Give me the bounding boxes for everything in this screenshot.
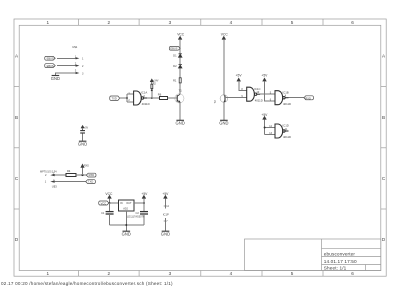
svg-text:+5V: +5V xyxy=(141,192,148,196)
wire branch up from junction xyxy=(82,167,84,175)
wire VCC chain xyxy=(179,40,181,95)
junction (IC1D inputs tie) xyxy=(264,127,266,129)
resistor R4 (inline) xyxy=(66,174,76,177)
svg-text:C1: C1 xyxy=(101,211,105,215)
wire IC2 OUT to +5V xyxy=(134,202,144,204)
svg-text:02.17 00:20 /home/stefan/eagl: 02.17 00:20 /home/stefan/eagle/homecontr… xyxy=(1,281,173,286)
transistor T2 xyxy=(224,96,226,102)
wire C3 to GND xyxy=(82,133,84,141)
svg-text:6: 6 xyxy=(351,20,354,25)
wire gnd bus xyxy=(110,224,144,226)
svg-text:R6: R6 xyxy=(158,93,162,97)
svg-text:VCC: VCC xyxy=(221,32,229,36)
capacitor C2 xyxy=(140,212,148,214)
svg-text:3: 3 xyxy=(169,20,172,25)
svg-text:C2: C2 xyxy=(135,211,139,215)
svg-text:4: 4 xyxy=(230,20,233,25)
wire +5V to pin 14 xyxy=(165,199,167,209)
wire +5V to IC1D inputs xyxy=(265,120,275,135)
svg-text:MPT0,5/2-2,54: MPT0,5/2-2,54 xyxy=(40,171,57,174)
svg-text:1: 1 xyxy=(47,20,50,25)
wire IC2 ADJ down xyxy=(125,211,127,231)
wire U$3 pin2 to R4 xyxy=(55,174,67,176)
svg-text:T2: T2 xyxy=(213,100,217,104)
wire branch up xyxy=(151,89,153,98)
frame column numbers bottom xyxy=(47,271,355,276)
wire U$1 pin3 from GND xyxy=(55,73,76,75)
net flag RXD (IC1B output) xyxy=(304,96,314,100)
wire pin 7 to GND xyxy=(165,218,167,231)
ground GND (C3) xyxy=(79,140,87,142)
svg-text:OUT: OUT xyxy=(126,202,132,205)
svg-text:6: 6 xyxy=(351,271,354,276)
svg-text:LD1117AS50TR: LD1117AS50TR xyxy=(127,215,145,218)
svg-text:RXD: RXD xyxy=(84,166,89,168)
svg-text:4: 4 xyxy=(230,271,233,276)
wire IC1C out to IC1B pin5 xyxy=(260,93,275,95)
wire R6 to T1 xyxy=(167,97,176,99)
svg-text:IN: IN xyxy=(120,202,123,205)
svg-text:TXD: TXD xyxy=(88,180,93,184)
frame row letters xyxy=(15,54,386,243)
wire C2 branch xyxy=(143,203,145,211)
wire U$1 pin1 from flag xyxy=(57,57,76,59)
title block xyxy=(245,239,381,271)
wire C1 to gnd bus xyxy=(109,214,111,225)
svg-text:GND: GND xyxy=(219,121,228,126)
svg-text:VCC: VCC xyxy=(177,32,185,36)
svg-text:Sheet: 1/1: Sheet: 1/1 xyxy=(324,266,347,271)
svg-text:4011D: 4011D xyxy=(142,102,150,106)
supply arrow node xyxy=(81,126,84,131)
wire U$1 pin2 from flag xyxy=(57,65,76,67)
net flag TXD (input to IC1A) xyxy=(110,96,120,100)
wire C1 branch xyxy=(109,203,111,211)
svg-text:GND: GND xyxy=(175,121,184,126)
wire flag to IC1A inputs xyxy=(120,94,134,102)
connector U$3 (serial header) xyxy=(50,174,54,183)
svg-text:14.01.17 17:50: 14.01.17 17:50 xyxy=(324,259,357,264)
svg-text:1: 1 xyxy=(47,271,50,276)
wire +5V to IC1B pin6 xyxy=(265,81,275,101)
svg-text:D2: D2 xyxy=(173,64,177,68)
net flag EBUS (on VCC chain) xyxy=(169,46,180,50)
diode D1 xyxy=(179,54,182,57)
svg-text:GND: GND xyxy=(51,76,60,81)
capacitor C1 xyxy=(106,212,114,214)
svg-text:+24V: +24V xyxy=(153,80,159,82)
svg-text:4011D: 4011D xyxy=(283,102,291,106)
ground GND (T2) xyxy=(220,119,228,121)
svg-text:R1: R1 xyxy=(173,78,177,82)
wire U$3 pin1 to flag xyxy=(55,181,86,183)
capacitor C3 xyxy=(80,131,85,133)
net flag RXD2 xyxy=(86,173,96,177)
wire flag to IC2 IN xyxy=(109,202,118,204)
svg-text:5: 5 xyxy=(291,20,294,25)
svg-text:ebusconverter: ebusconverter xyxy=(324,251,356,256)
svg-text:B: B xyxy=(382,115,385,120)
wire R4 to flag xyxy=(76,174,87,176)
sheet frame xyxy=(14,19,386,276)
title block text xyxy=(324,251,357,270)
wire T2 base to IC1C pin 9 xyxy=(225,97,247,99)
wire VCC down to IN wire xyxy=(109,199,111,203)
ground GND (T1) xyxy=(176,119,184,121)
svg-text:GND: GND xyxy=(161,232,170,237)
svg-text:IC1P: IC1P xyxy=(163,212,169,216)
svg-text:U$3: U$3 xyxy=(52,184,57,188)
svg-text:EBUS-: EBUS- xyxy=(47,64,55,68)
ground GND (U$1 pin3) xyxy=(52,75,60,77)
wire T2 emitter to GND xyxy=(223,102,225,120)
frame column numbers top xyxy=(47,20,355,25)
svg-text:+5V: +5V xyxy=(236,73,243,77)
svg-text:3: 3 xyxy=(169,271,172,276)
svg-text:EBUS+: EBUS+ xyxy=(47,57,56,61)
net flag +24V (regulator input) xyxy=(99,201,109,205)
connector U$1 xyxy=(76,57,80,74)
supply arrow above R2 xyxy=(150,79,153,84)
svg-text:+5V: +5V xyxy=(84,127,89,130)
wire +5V to IC1C pin8 xyxy=(239,81,247,90)
net flag TXD2 xyxy=(86,180,96,184)
junction dot xyxy=(151,89,153,91)
resistor R6 (inline) xyxy=(159,97,167,100)
junction (gnd bus) xyxy=(125,224,127,226)
svg-text:4011D: 4011D xyxy=(255,98,263,102)
wire C2 to gnd bus xyxy=(143,214,145,225)
wire IC1A output to T1 base xyxy=(147,97,159,99)
resistor R1 (vertical) xyxy=(179,78,181,83)
svg-text:EBUS: EBUS xyxy=(170,47,177,51)
svg-text:TXD: TXD xyxy=(112,96,117,100)
NAND gate IC1A xyxy=(134,91,147,105)
svg-text:GND: GND xyxy=(122,232,131,237)
ground GND (IC1P) xyxy=(162,230,170,232)
NAND gate IC1D xyxy=(275,124,289,138)
svg-text:GND: GND xyxy=(78,142,87,147)
junction (IC1A inputs tie) xyxy=(126,97,128,99)
svg-text:+5V: +5V xyxy=(261,73,268,77)
wire IC1B out to flag xyxy=(289,97,304,99)
svg-text:RXD: RXD xyxy=(305,96,311,100)
voltage regulator IC2 xyxy=(119,200,134,211)
ground GND (regulator) xyxy=(123,230,131,232)
junction (OUT/+5V) xyxy=(143,202,145,204)
junction (VCC/IN) xyxy=(109,202,111,204)
svg-text:B: B xyxy=(15,115,18,120)
junction (R4 net) xyxy=(81,174,83,176)
svg-text:2: 2 xyxy=(108,271,111,276)
NAND gate IC1C xyxy=(247,87,261,101)
net flag EBUS+ xyxy=(45,56,55,60)
transistor T1 xyxy=(176,95,178,102)
svg-text:5: 5 xyxy=(291,271,294,276)
diode D2 xyxy=(179,65,182,68)
svg-text:R4: R4 xyxy=(67,169,71,173)
node arrow RXD xyxy=(81,164,84,167)
junction on output wire xyxy=(151,97,153,99)
wire VCC to T2 xyxy=(223,40,225,96)
net flag EBUS- xyxy=(45,64,56,68)
NAND gate IC1B xyxy=(275,91,289,105)
svg-text:2: 2 xyxy=(108,20,111,25)
wire T1 emitter to GND xyxy=(179,102,181,120)
svg-text:U$1: U$1 xyxy=(72,45,78,49)
svg-text:RXD: RXD xyxy=(89,173,95,177)
svg-text:4011D: 4011D xyxy=(283,135,291,139)
svg-text:VCC: VCC xyxy=(101,201,107,205)
resistor R2 (vertical small) xyxy=(151,84,153,88)
svg-text:ADJ: ADJ xyxy=(123,207,128,210)
svg-text:D1: D1 xyxy=(173,53,177,57)
